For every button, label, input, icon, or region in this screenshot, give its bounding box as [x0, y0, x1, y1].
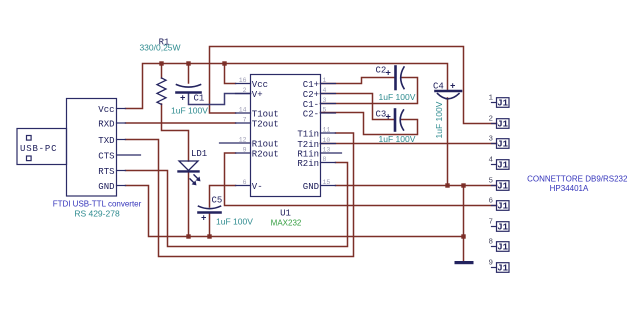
node C4 bottom / GND wire — [445, 183, 449, 187]
svg-text:R2in: R2in — [297, 159, 319, 169]
svg-text:C1+: C1+ — [303, 80, 319, 90]
svg-text:T2in: T2in — [297, 140, 319, 150]
capacitor C1 — [177, 85, 201, 93]
svg-text:6: 6 — [243, 179, 247, 186]
IC right pin numbers — [323, 77, 331, 186]
J1 labels — [497, 99, 508, 274]
node ground drop / GND wire — [461, 183, 465, 187]
svg-text:RTS: RTS — [98, 167, 114, 177]
svg-text:MAX232: MAX232 — [271, 218, 302, 227]
LED LD1 triangle — [179, 161, 199, 183]
svg-text:T2out: T2out — [252, 120, 279, 130]
svg-text:14: 14 — [239, 107, 247, 114]
pin 14 T1out stub — [236, 112, 251, 114]
pin 5 C2- stub — [321, 112, 336, 114]
wire TXD net: FTDI TXD to T1in pin11 via bottom row — [126, 133, 354, 257]
pin stub FTDI TXD — [117, 139, 126, 141]
pin 3 C1- stub — [321, 103, 336, 105]
svg-text:11: 11 — [323, 127, 331, 134]
svg-text:+: + — [180, 94, 185, 104]
wire GND net: drop to ground symbol — [463, 186, 465, 262]
svg-text:1uF 100V: 1uF 100V — [434, 101, 444, 138]
pin stub FTDI RTS — [117, 170, 126, 172]
pin 12 R1out stub — [220, 142, 251, 144]
LED LD1 cathode bar — [179, 170, 199, 172]
node C5 bottom / GND row — [207, 234, 211, 238]
pin 11 T1in stub — [321, 132, 336, 134]
pin 1 C1+ stub — [321, 83, 336, 85]
svg-text:15: 15 — [323, 179, 331, 186]
svg-text:9: 9 — [243, 147, 247, 154]
capacitor C4 — [436, 91, 462, 99]
svg-text:1: 1 — [323, 77, 327, 84]
svg-text:R2out: R2out — [252, 150, 279, 160]
wire RTS net: FTDI RTS to R2in pin8 via bottom row — [126, 163, 348, 247]
pin 7 T2out stub — [236, 122, 251, 124]
connector pin 8 J1 — [492, 246, 497, 248]
svg-text:J1: J1 — [497, 99, 508, 109]
connector pin 1 J1 — [492, 102, 497, 104]
ground symbol — [455, 261, 474, 264]
svg-text:C2+: C2+ — [303, 90, 319, 100]
svg-text:RS 429-278: RS 429-278 — [74, 209, 120, 219]
svg-text:GND: GND — [303, 182, 319, 192]
svg-text:4: 4 — [323, 87, 327, 94]
wire T1out net: pin14 to DB9 pin2 via outer top — [210, 47, 497, 124]
svg-text:J1: J1 — [497, 243, 508, 253]
connector pin 2 J1 — [492, 123, 497, 125]
svg-text:+: + — [386, 113, 391, 123]
pin stub FTDI GND — [117, 185, 126, 187]
svg-text:V-: V- — [252, 182, 263, 192]
svg-text:Vcc: Vcc — [252, 80, 268, 90]
USB-PC connector box — [17, 129, 67, 165]
svg-text:LD1: LD1 — [191, 149, 207, 159]
svg-text:FTDI USB-TTL converter: FTDI USB-TTL converter — [53, 200, 142, 209]
svg-text:J1: J1 — [497, 223, 508, 233]
svg-text:C4: C4 — [433, 82, 444, 92]
svg-text:+: + — [201, 214, 206, 224]
svg-text:HP34401A: HP34401A — [550, 184, 589, 193]
svg-text:GND: GND — [98, 182, 114, 192]
pin 15 GND stub — [321, 185, 336, 187]
svg-text:5: 5 — [488, 178, 493, 186]
svg-text:2: 2 — [243, 87, 247, 94]
svg-text:T1out: T1out — [252, 110, 279, 120]
svg-text:12: 12 — [239, 137, 247, 144]
wire Vcc net: FTDI Vcc to top rail to C4 — [126, 64, 448, 109]
svg-text:8: 8 — [323, 156, 327, 163]
FTDI USB-TTL converter box — [67, 99, 117, 197]
svg-text:R1out: R1out — [252, 140, 279, 150]
wire GND net: FTDI GND down and across row A — [126, 186, 464, 237]
pin 10 T2in stub — [321, 143, 336, 145]
svg-text:4: 4 — [488, 157, 493, 165]
wire R1 bottom to LED anode — [162, 104, 189, 161]
svg-text:1uF 100V: 1uF 100V — [379, 134, 416, 144]
svg-text:13: 13 — [323, 147, 331, 154]
node ground drop / GND row A — [461, 234, 465, 238]
pin stub FTDI Vcc — [117, 108, 126, 110]
svg-text:8: 8 — [488, 239, 493, 247]
svg-text:C2-: C2- — [303, 110, 319, 120]
svg-text:1uF 100V: 1uF 100V — [216, 217, 253, 227]
svg-text:6: 6 — [488, 198, 493, 206]
FTDI pin names — [98, 105, 114, 192]
svg-text:16: 16 — [239, 77, 247, 84]
wire V- net: pin6 to C5 top — [210, 186, 236, 208]
svg-text:1uF 100V: 1uF 100V — [379, 92, 416, 102]
IC right pin stubs — [321, 84, 342, 186]
IC right pin names — [297, 80, 319, 192]
svg-text:C1-: C1- — [303, 100, 319, 110]
pin 13 R1in stub — [321, 152, 342, 154]
connector pin 5 J1 — [492, 185, 497, 187]
svg-text:7: 7 — [488, 219, 493, 227]
connector J1 DB9 pins 1-9 — [492, 98, 510, 273]
svg-text:CTS: CTS — [98, 152, 114, 162]
pin 2 V+ stub — [236, 93, 251, 95]
IC left pin stubs — [220, 84, 251, 186]
svg-text:J1: J1 — [497, 202, 508, 212]
svg-text:+: + — [450, 81, 455, 91]
pin stub FTDI CTS — [117, 154, 141, 156]
svg-text:5: 5 — [323, 107, 327, 114]
node IC pin16 / Vcc rail — [222, 61, 226, 65]
node R1 top / Vcc rail — [159, 61, 163, 65]
connector pin 9 J1 — [492, 267, 497, 269]
svg-text:R1in: R1in — [297, 150, 319, 160]
wire C3 right plate to C2- pin5 — [321, 113, 418, 135]
pin 6 V- stub — [236, 185, 251, 187]
svg-text:J1: J1 — [497, 120, 508, 130]
svg-text:10: 10 — [323, 137, 331, 144]
IC U1 MAX232 body — [251, 75, 321, 197]
svg-text:9: 9 — [488, 260, 493, 268]
svg-text:CONNETTORE DB9/RS232: CONNETTORE DB9/RS232 — [527, 175, 628, 184]
svg-text:J1: J1 — [497, 264, 508, 274]
capacitor C2 — [396, 67, 405, 90]
wire RXD net: FTDI RXD to T2out pin7 — [126, 122, 236, 124]
IC left pin names — [252, 80, 279, 192]
wire R1 top lead — [161, 64, 163, 79]
wire Vcc rail to IC pin16 — [225, 64, 236, 84]
connector pin 3 J1 — [492, 143, 497, 145]
svg-text:T1in: T1in — [297, 130, 319, 140]
wire R2out net: pin9 to DB9 pin6 — [225, 153, 497, 206]
svg-text:2: 2 — [488, 116, 493, 124]
wire C2 right plate to C1- pin3 — [321, 78, 418, 104]
connector pin 7 J1 — [492, 226, 497, 228]
svg-text:V+: V+ — [252, 90, 263, 100]
wire C5 bottom to GND row A — [209, 213, 211, 237]
svg-text:USB-PC: USB-PC — [20, 144, 57, 154]
svg-text:Vcc: Vcc — [98, 105, 114, 115]
svg-text:7: 7 — [243, 117, 247, 124]
svg-text:J1: J1 — [497, 161, 508, 171]
DB9 pin numbers 1-9 — [488, 95, 493, 268]
connector pin 4 J1 — [492, 164, 497, 166]
wire C1+ pin1 to C2 left plate — [321, 78, 395, 84]
IC left pin numbers — [239, 77, 247, 186]
pin stub FTDI RXD — [117, 122, 126, 124]
capacitor C5 — [199, 206, 221, 212]
wire T2in net: pin10 to DB9 pin3 — [321, 143, 497, 145]
svg-text:3: 3 — [488, 136, 493, 144]
svg-text:3: 3 — [323, 97, 327, 104]
svg-text:TXD: TXD — [98, 136, 114, 146]
connector pin 6 J1 — [492, 205, 497, 207]
FTDI pin stubs — [117, 109, 141, 186]
LED LD1 emission arrows — [190, 175, 198, 183]
capacitor C3 — [395, 110, 404, 131]
wire C2+ pin4 to C3 left plate — [321, 94, 395, 120]
wire LED cathode to GND row A — [188, 172, 190, 237]
wire C4 bottom lead to GND — [447, 98, 449, 186]
wire GND net: IC pin15 to DB9 pin5 — [336, 185, 497, 187]
svg-text:+: + — [386, 69, 391, 79]
node C1 top / Vcc rail — [186, 61, 190, 65]
svg-text:U1: U1 — [280, 208, 291, 218]
wire C1 top lead — [188, 64, 190, 84]
svg-text:1: 1 — [488, 95, 493, 103]
pin 8 R2in stub — [321, 162, 336, 164]
resistor R1 — [157, 78, 166, 104]
svg-text:J1: J1 — [497, 140, 508, 150]
node LED cathode / GND row — [186, 234, 190, 238]
svg-text:J1: J1 — [497, 182, 508, 192]
svg-text:330/0,25W: 330/0,25W — [139, 42, 180, 52]
pin 4 C2+ stub — [321, 93, 336, 95]
pin 9 R2out stub — [236, 152, 251, 154]
svg-text:1uF 100V: 1uF 100V — [171, 106, 208, 116]
svg-text:C1: C1 — [194, 94, 205, 104]
svg-text:RXD: RXD — [98, 120, 114, 130]
svg-text:C5: C5 — [212, 196, 223, 206]
pin 16 Vcc stub — [236, 83, 251, 85]
wire V+ pin2 to C1 bottom plate (staircase) — [189, 93, 251, 105]
